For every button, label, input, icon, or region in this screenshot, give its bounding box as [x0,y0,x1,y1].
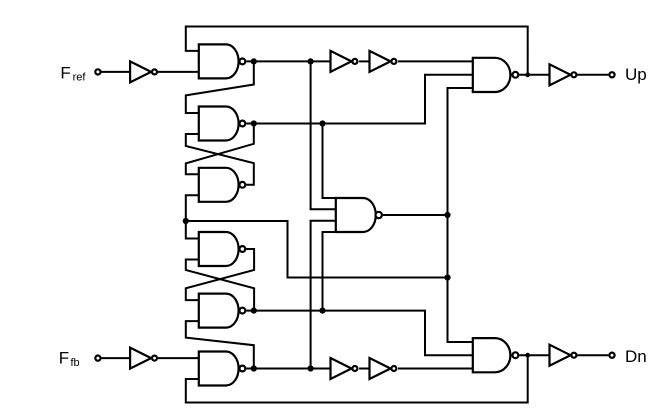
junction dot U9 output [525,353,530,358]
svg-text:Up: Up [625,65,647,84]
nand gate U2 [199,107,246,141]
inverter IV2 (Ffb) [130,348,157,369]
wire U7 output net vertical to U8 input 3 and U9 input 1 [448,88,473,342]
terminal Ffb [95,356,100,361]
svg-text:ref: ref [73,72,87,84]
wire bottom inverter pair to U9 input 3 [398,368,473,370]
wire U5 bottom input to U6 output (shallow diagonal) [186,321,254,368]
wire between bottom inverter pair [359,368,369,370]
wire V2 lower: U5 output up to U7 input 4 [323,232,336,311]
wire U9 output to inverter IV8 [519,354,549,356]
wire U1 output to U2 top input (Z wire) [186,61,254,113]
nand gate U6 [199,352,246,386]
junction dot U1 output [251,58,257,64]
terminal Up [609,72,614,77]
junction dot U8 output [525,72,530,77]
svg-text:Dn: Dn [625,347,647,366]
node Fref input lead [101,71,130,73]
wire U3 bottom input / node N down to U4 top input [186,195,199,238]
svg-text:fb: fb [71,357,80,369]
wire U2 output to U3 top input (cross diagonal) [186,124,254,175]
inverter IV4 (top delay b) [370,51,397,72]
label Ffb [59,349,80,369]
nand gate U7 (4-input) [336,198,382,232]
junction dot U6 output [251,365,257,371]
inverter IV5 (bottom delay a) [331,358,358,379]
wire inverter IV2 output to U6 input [158,357,199,359]
wire bottom feedback border (U9 output to U6 bottom input) [186,355,528,402]
node Ffb input lead [101,357,130,359]
wire IV7 output to Up terminal [577,74,608,76]
wire U5 output to U4 bottom input (cross diagonal) [186,260,254,311]
inverter IV7 (Up) [550,64,577,85]
wire U1 output row [246,60,330,62]
wire node N branch to U7 output net [186,221,448,278]
junction dot U7 output [444,212,450,218]
nand gate U3 [199,168,246,202]
wire U8 output to inverter IV7 [519,74,549,76]
wire U3 output to U2 bottom input (cross diagonal) [186,134,254,185]
wire U2 output to U8 input 2 [246,75,473,124]
junction dot U7 net with node N branch [444,274,450,280]
inverter IV3 (top delay a) [331,51,358,72]
nand gate U8 (3-input) [473,58,519,92]
junction dot node N [183,218,189,224]
wire V1 lower: U6 output up to U7 input 3 [311,221,336,369]
nand gate U5 [199,294,246,328]
svg-text:F: F [59,349,69,368]
terminal Fref [95,69,100,74]
junction dot U6 output to V1 [308,365,314,371]
junction dot U5 output [251,308,257,314]
junction dot U5 output to V2 [319,308,325,314]
nand gate U1 [199,44,246,78]
wire V2 upper: U2 output down to U7 input 1 [323,124,336,199]
inverter IV8 (Dn) [550,345,577,366]
wire U7 output [383,214,448,216]
wire U6 output row [246,368,330,370]
terminal Dn [609,353,614,358]
inverter IV1 (Fref) [130,61,157,82]
svg-text:F: F [60,64,70,83]
wire top feedback border (U8 output to U1 top input) [186,27,528,75]
junction dot U2 output to V2 [319,120,325,126]
label Fref [60,64,86,84]
wire between top inverter pair [359,60,369,62]
nand gate U9 (3-input) [473,338,519,372]
wire top inverter pair to U8 input 1 [398,60,473,62]
wire U5 output to U9 input 2 [246,311,473,356]
nand gate U4 [199,232,246,266]
wire inverter IV1 output to U1 input [158,71,199,73]
inverter IV6 (bottom delay b) [370,358,397,379]
junction dot U2 output [251,120,257,126]
wire U4 output to U5 top input (cross diagonal) [186,249,254,300]
junction dot U1 output to V1 [308,58,314,64]
wire V1 upper: U1 output down to U7 input 2 [311,61,336,209]
wire IV8 output to Dn terminal [577,354,608,356]
